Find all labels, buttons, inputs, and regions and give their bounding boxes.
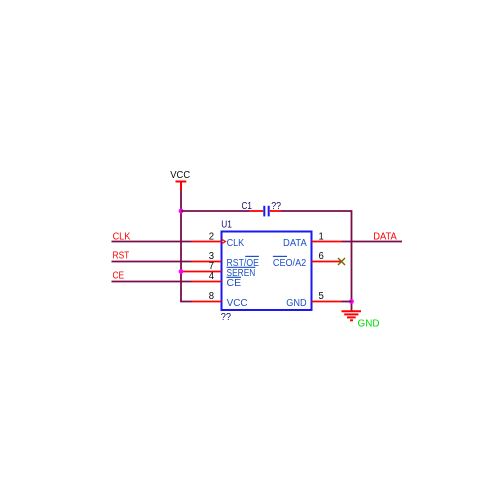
wire CE net xyxy=(112,281,192,283)
ground symbol xyxy=(342,311,362,320)
wire DATA net xyxy=(342,241,403,243)
svg-text:GND: GND xyxy=(358,319,380,330)
junction at pin 7 / VCC rail xyxy=(179,269,184,274)
svg-text:DATA: DATA xyxy=(283,238,307,249)
svg-text:C1: C1 xyxy=(242,201,253,212)
junction at VCC rail / capacitor branch xyxy=(179,209,184,214)
svg-text:CE: CE xyxy=(227,278,242,289)
pin 6 CEO/A2 stub xyxy=(312,261,342,263)
pin 7 SEREN stub xyxy=(181,271,222,273)
svg-text:RST: RST xyxy=(113,251,130,262)
svg-text:5: 5 xyxy=(319,291,325,302)
svg-text:DATA: DATA xyxy=(373,231,397,242)
clock input arrow on pin 2 xyxy=(222,239,226,243)
power symbol VCC xyxy=(170,170,190,190)
svg-text:CE: CE xyxy=(113,271,125,282)
wire capacitor to GND rail xyxy=(281,211,352,311)
svg-text:CLK: CLK xyxy=(113,232,131,243)
pin 2 CLK stub xyxy=(192,241,222,243)
pin 1 DATA stub xyxy=(312,241,342,243)
pin 5 GND stub xyxy=(312,301,342,303)
svg-text:2: 2 xyxy=(209,231,215,242)
svg-text:??: ?? xyxy=(221,312,232,323)
svg-text:CEO/A2: CEO/A2 xyxy=(273,258,307,269)
pin 3 RST/OE stub xyxy=(192,261,222,263)
svg-text:VCC: VCC xyxy=(227,298,248,309)
svg-text:CLK: CLK xyxy=(227,238,245,249)
pin name SEREN with overbar xyxy=(227,267,256,279)
capacitor C1 xyxy=(249,206,281,217)
chip U1 body xyxy=(222,232,312,311)
no-connect X on pin 6 xyxy=(338,258,345,265)
svg-text:1: 1 xyxy=(319,231,325,242)
wire VCC rail vertical to pin 8 xyxy=(181,191,192,302)
svg-text:U1: U1 xyxy=(221,220,232,231)
wire RST net xyxy=(112,261,192,263)
pin name CEO/A2 with overbar on CEO xyxy=(273,256,307,268)
wire CLK net xyxy=(112,241,192,243)
svg-text:6: 6 xyxy=(319,251,325,262)
wire VCC rail to capacitor C1 xyxy=(181,210,249,212)
svg-text:8: 8 xyxy=(209,291,215,302)
svg-text:VCC: VCC xyxy=(170,170,190,181)
pin 8 VCC stub xyxy=(192,301,222,303)
svg-text:??: ?? xyxy=(271,201,281,212)
wire pin 5 stub to GND rail xyxy=(342,301,352,303)
svg-text:GND: GND xyxy=(286,298,306,309)
svg-text:4: 4 xyxy=(209,271,215,282)
pin name CE with overbar xyxy=(227,277,242,289)
junction at pin 5 / GND rail xyxy=(349,299,354,304)
pin name RST/OE with overbar on OE xyxy=(227,256,260,268)
pin 4 CE stub xyxy=(192,281,222,283)
